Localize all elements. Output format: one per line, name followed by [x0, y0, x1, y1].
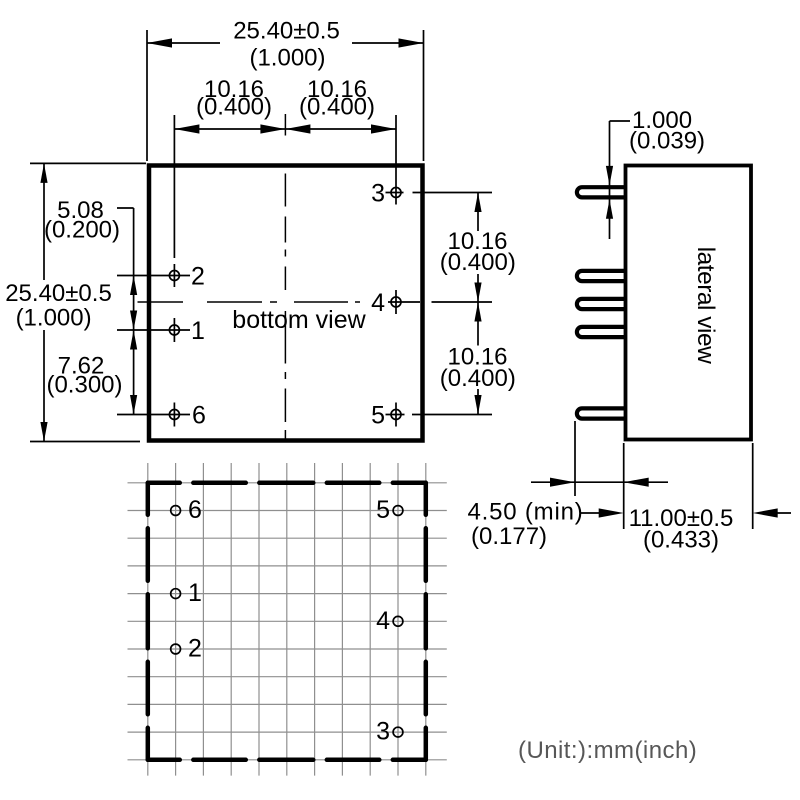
- svg-text:2: 2: [191, 263, 205, 291]
- land pattern pin 5: [393, 506, 403, 516]
- svg-text:25.40±0.5: 25.40±0.5: [233, 18, 340, 45]
- svg-text:2: 2: [188, 635, 202, 663]
- lateral pin mid3: [577, 327, 627, 337]
- lateral pin bottom: [577, 408, 627, 418]
- dimension 25.40±0.5 height: dim line + arrows: [43, 163, 45, 280]
- svg-text:6: 6: [192, 402, 206, 430]
- pin 3 row line: [386, 192, 404, 194]
- dimension 1.000 pin thickness: leader + arrows: [609, 121, 611, 239]
- pin 2 row line: [117, 275, 190, 277]
- svg-text:3: 3: [371, 180, 385, 208]
- dimension 10.16 right upper: dim line + arrows: [477, 193, 479, 232]
- pin 1: [169, 325, 179, 335]
- pin 6 row line: [117, 414, 190, 416]
- svg-text:(0.200): (0.200): [44, 217, 120, 244]
- svg-text:(0.039): (0.039): [629, 128, 705, 155]
- svg-text:(0.433): (0.433): [643, 526, 719, 553]
- svg-text:1: 1: [188, 579, 202, 607]
- svg-text:(1.000): (1.000): [249, 45, 325, 72]
- svg-text:4: 4: [371, 289, 385, 317]
- pin 4 row line: [388, 301, 420, 303]
- dimension 5.08: leader + arrows: [117, 207, 134, 209]
- pin 2: [169, 271, 179, 281]
- dimension 10.16 pin spans: dim line + arrows: [174, 128, 396, 130]
- svg-text:(0.400): (0.400): [299, 94, 375, 121]
- lateral pin mid2: [577, 299, 627, 309]
- dimension 25.40±0.5 width: dim line + arrows: [147, 42, 220, 44]
- pin 5: [391, 410, 401, 420]
- svg-text:3: 3: [376, 718, 390, 746]
- dimension 25.40±0.5 width: extension lines: [146, 30, 148, 161]
- svg-text:4.50 (min): 4.50 (min): [468, 499, 584, 526]
- vertical centerline: [284, 114, 286, 136]
- dimension 7.62: dim line + arrows: [133, 330, 135, 415]
- svg-text:(1.000): (1.000): [16, 305, 92, 332]
- land pattern pin 2: [171, 644, 181, 654]
- land pattern pin 6: [171, 506, 181, 516]
- land pattern pin 3: [393, 727, 403, 737]
- svg-text:1: 1: [191, 317, 205, 345]
- module body outline (bottom view): [149, 166, 423, 441]
- lateral pin top: [577, 187, 627, 197]
- pin column line right: [395, 115, 397, 205]
- horizontal centerline: [138, 301, 184, 303]
- svg-text:bottom view: bottom view: [232, 306, 366, 334]
- svg-text:(0.400): (0.400): [440, 249, 516, 276]
- svg-text:6: 6: [188, 496, 202, 524]
- svg-text:(0.177): (0.177): [471, 523, 547, 550]
- pin 6: [169, 410, 179, 420]
- svg-text:(0.400): (0.400): [196, 94, 272, 121]
- svg-text:(0.300): (0.300): [46, 372, 122, 399]
- dimension 25.40±0.5 height: extension lines: [30, 162, 146, 164]
- land pattern outline (dashed): [148, 483, 426, 760]
- pin 1 row line: [117, 329, 190, 331]
- land pattern pin 1: [171, 589, 181, 599]
- svg-text:25.40±0.5: 25.40±0.5: [5, 280, 112, 307]
- svg-text:(0.400): (0.400): [440, 365, 516, 392]
- pin 5 row line: [386, 414, 405, 416]
- module body outline (lateral view): [626, 166, 752, 440]
- pin 4: [391, 297, 401, 307]
- dimension 4.50 min: dim line + arrows: [531, 481, 668, 483]
- land pattern pin 4: [393, 616, 403, 626]
- grid (0.1in pitch reference grid, bottom view): [128, 463, 447, 776]
- svg-text:5: 5: [376, 496, 390, 524]
- pin 3: [391, 188, 401, 198]
- lateral pin mid1: [577, 271, 627, 281]
- svg-text:lateral view: lateral view: [692, 247, 719, 364]
- dimension 4.50 min: extension lines: [574, 421, 576, 496]
- pin column line left: [173, 115, 175, 258]
- dimension 11.00±0.5: dim line + arrows: [581, 512, 606, 514]
- svg-text:4: 4: [376, 607, 390, 635]
- svg-text:5: 5: [371, 402, 385, 430]
- svg-text:(Unit:):mm(inch): (Unit:):mm(inch): [518, 737, 697, 764]
